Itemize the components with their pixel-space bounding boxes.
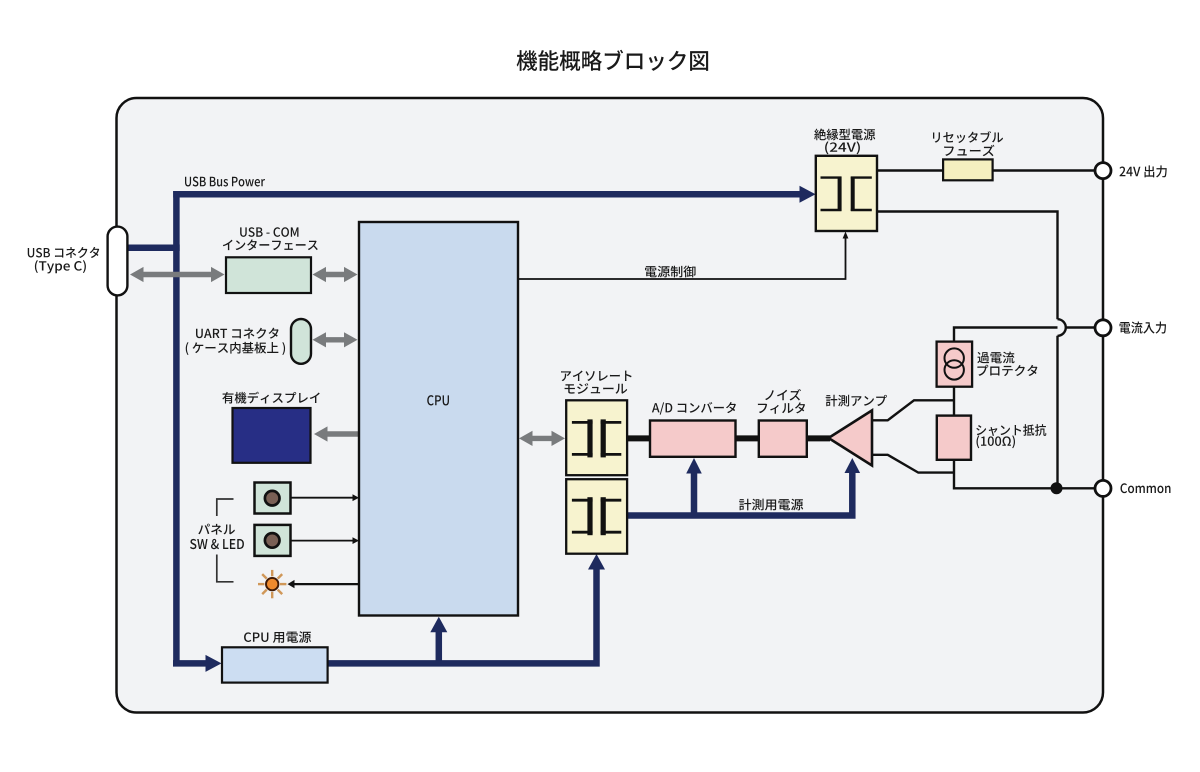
title 機能概略ブロック図 bbox=[517, 50, 709, 71]
label パネル SW & LED bbox=[190, 524, 244, 550]
wire noise filter to 計測アンプ bbox=[807, 435, 830, 441]
arrow USB connector to USB-COM interface (bidirectional) bbox=[142, 272, 213, 277]
label Common bbox=[1120, 483, 1170, 493]
label 過電流プロテクタ bbox=[977, 352, 1037, 376]
wire bus to CPU用電源 with arrow bbox=[173, 660, 206, 667]
label 計測用電源 bbox=[739, 499, 803, 511]
wire CPU用電源 to isolate module 2 bbox=[328, 569, 597, 664]
wire isolate module to A/D converter bbox=[627, 435, 651, 441]
arrow switch 1 to CPU bbox=[291, 497, 355, 499]
wire A/D converter to noise filter bbox=[736, 435, 759, 441]
label USB Bus Power bbox=[185, 177, 265, 187]
label ノイズフィルタ bbox=[758, 389, 805, 414]
wire USB connector stub bbox=[126, 244, 180, 251]
wire シャント抵抗 to Common terminal bbox=[954, 460, 1097, 488]
block USB-COM interface bbox=[226, 257, 311, 293]
enclosure case outline bbox=[117, 98, 1104, 713]
block ノイズフィルタ bbox=[759, 421, 807, 457]
arrow CPU to 有機ディスプレイ bbox=[327, 431, 359, 436]
label 絶縁型電源 (24V) bbox=[814, 129, 875, 155]
block isolate module 2 with transformer symbol bbox=[566, 479, 627, 554]
wire 過電流プロテクタ to シャント抵抗 bbox=[953, 386, 955, 416]
junction dot on Common rail bbox=[1051, 482, 1063, 494]
op-amp 計測アンプ triangle bbox=[829, 410, 873, 465]
label CPU 用電源 bbox=[244, 631, 311, 643]
switch SW2 bbox=[255, 525, 291, 556]
label USB-COM interface bbox=[223, 227, 318, 250]
wire 電源制御 control line CPU to 絶縁型電源 bbox=[518, 237, 846, 279]
switch SW1 bbox=[255, 483, 291, 514]
block CPU用電源 (CPU power supply) bbox=[222, 647, 328, 682]
terminal 24V output bbox=[1095, 163, 1111, 179]
label USB コネクタ (Type C) bbox=[28, 247, 100, 273]
block A/D コンバータ bbox=[650, 421, 736, 457]
label 電源制御 bbox=[645, 266, 695, 278]
wire 絶縁型電源 second output down to Common rail bbox=[877, 212, 1058, 320]
wire 計測用電源 measurement power line bbox=[627, 473, 852, 516]
block 過電流プロテクタ (overcurrent protector) bbox=[937, 342, 973, 387]
connector UART pill bbox=[291, 319, 311, 364]
arrow CPU to LED bbox=[293, 583, 360, 585]
arrow USB-COM interface to CPU (bidirectional) bbox=[325, 272, 346, 277]
wire 絶縁型電源 to リセッタブルフューズ bbox=[877, 169, 943, 171]
wire amp lower input tap bbox=[872, 455, 954, 473]
terminal Common bbox=[1095, 480, 1111, 496]
wire branch arrow into CPU bottom bbox=[436, 632, 443, 663]
connector USB Type-C pill bbox=[108, 227, 128, 296]
block isolate module 1 with transformer symbol bbox=[566, 400, 627, 475]
block 絶縁型電源 (isolated power supply 24V) with transformer symbol bbox=[816, 156, 877, 231]
label アイソレートモジュール bbox=[561, 370, 632, 393]
block 有機ディスプレイ (OLED display) bbox=[233, 408, 311, 463]
label リセッタブルフューズ bbox=[933, 131, 1003, 156]
label CPU bbox=[427, 395, 449, 405]
label 24V 出力 bbox=[1119, 165, 1166, 177]
label 電流入力 bbox=[1120, 322, 1167, 334]
label 有機ディスプレイ bbox=[222, 392, 319, 404]
arrow switch 2 to CPU bbox=[291, 540, 355, 542]
label UART コネクタ bbox=[186, 328, 285, 355]
bracket panel SW & LED group bbox=[217, 499, 234, 516]
wire current input terminal to 過電流プロテクタ bbox=[954, 328, 1097, 342]
wire continuation down to Common junction bbox=[1056, 336, 1058, 489]
label A/D コンバータ bbox=[652, 402, 736, 415]
arrow CPU to isolate module (bidirectional) bbox=[531, 436, 553, 441]
LED indicator bbox=[258, 570, 286, 598]
wire branch arrow into A/D converter bottom bbox=[691, 473, 698, 516]
wire amp upper input tap bbox=[872, 400, 954, 420]
wire USB Bus Power horizontal bbox=[173, 191, 800, 198]
resistor シャント抵抗 (shunt resistor 100Ω) bbox=[937, 416, 971, 460]
wire リセッタブルフューズ to 24V output terminal bbox=[992, 169, 1097, 171]
terminal current input bbox=[1095, 320, 1111, 336]
label シャント抵抗 (100Ω) bbox=[976, 424, 1046, 448]
arrow UART connector to CPU (bidirectional) bbox=[325, 337, 346, 342]
block CPU bbox=[359, 222, 518, 616]
block リセッタブルフューズ (resettable fuse) bbox=[943, 159, 993, 180]
wire hop (jump over current-input wire) bbox=[1058, 319, 1066, 336]
wire navy vertical bus bbox=[173, 191, 180, 663]
label 計測アンプ bbox=[826, 395, 887, 407]
